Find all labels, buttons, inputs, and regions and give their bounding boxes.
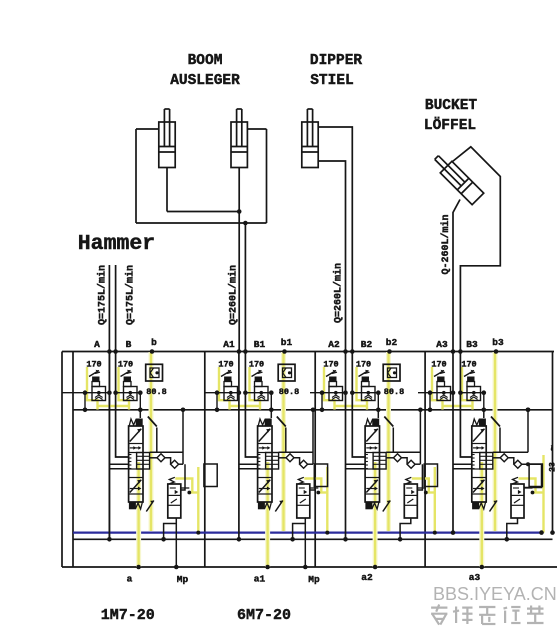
spool valve section 4 <box>472 426 486 502</box>
wire to check valves section 2 <box>279 457 286 459</box>
svg-text:23: 23 <box>549 462 557 472</box>
watermark chinese <box>431 605 543 625</box>
pilot yellow link section 1 <box>98 405 130 407</box>
wire feed to aux section 1 <box>181 464 185 490</box>
junction mid B2 <box>376 408 381 413</box>
junction aux-loop section 3 <box>398 537 403 542</box>
svg-text:STIEL: STIEL <box>310 73 354 89</box>
pilot yellow aux section 4 <box>533 491 544 493</box>
carryover box at x=315.2 <box>314 464 327 487</box>
wire to check valves section 1 <box>150 457 157 459</box>
junction boom-2 <box>243 221 248 226</box>
svg-text:6M7-20: 6M7-20 <box>237 607 291 624</box>
junction mid A <box>83 408 88 413</box>
node a3 <box>373 565 378 570</box>
wire aux-loop section 4 <box>507 519 518 540</box>
wire boom loop left <box>135 129 137 223</box>
junction mid feed section 2 <box>311 408 316 413</box>
node b3 <box>494 349 499 354</box>
wire check to feed section 1 <box>179 463 183 465</box>
wire relief-junction A1 <box>205 392 239 394</box>
node A2 supply-R <box>350 349 355 354</box>
check valve box section 3 <box>383 364 400 381</box>
svg-text:b2: b2 <box>386 337 398 348</box>
wire supply-right section 1 in block <box>116 352 129 458</box>
svg-text:a: a <box>127 574 133 585</box>
wire supply-right section 3 in block <box>352 352 365 458</box>
svg-text:B2: B2 <box>361 339 373 350</box>
wire aux-loop section 1 <box>164 524 177 540</box>
junction B2 jl <box>350 390 355 395</box>
junction supply bottom section 1 <box>107 537 112 542</box>
check valve 2 section 3 <box>407 460 415 468</box>
divider s2-s3 <box>314 352 316 568</box>
wire supply-left section 4 in block <box>452 352 454 533</box>
node a4 <box>480 565 485 570</box>
junction supply bottom section 2 <box>237 537 242 542</box>
cylinder bucket <box>431 152 484 205</box>
wire spool-in-2 section 1 <box>109 468 128 470</box>
pilot yellow aux-top section 2 <box>304 479 321 493</box>
wire spool-in-1 section 4 <box>453 463 472 465</box>
pilot yellow relief B3 <box>462 367 473 410</box>
wire spool-top feed section 2 <box>270 410 272 418</box>
junction mid B1 <box>269 408 274 413</box>
pilot yellow aux-top section 3 <box>412 479 429 493</box>
svg-text:DIPPER: DIPPER <box>310 53 363 69</box>
wire bypass section 3 <box>386 451 420 453</box>
pilot yellow relief B1 <box>250 367 261 410</box>
aux valve section 1 <box>168 484 181 518</box>
wire feed vertical section 2 <box>312 410 314 464</box>
wire check to feed section 3 <box>415 463 420 465</box>
wire spool-in-1 section 1 <box>109 463 128 465</box>
wire relief-junction B1 <box>245 392 271 394</box>
svg-text:1M7-20: 1M7-20 <box>101 607 155 624</box>
pilot yellow link section 3 <box>335 405 368 407</box>
svg-text:b3: b3 <box>492 337 504 348</box>
pilot yellow relief A2 <box>324 367 335 410</box>
svg-text:170: 170 <box>218 360 233 370</box>
svg-text:b: b <box>151 337 157 348</box>
carryover box at x=425.1 <box>424 464 437 487</box>
junction B3 jl <box>458 390 463 395</box>
junction B2 jr <box>376 390 381 395</box>
node A supply-L <box>107 349 112 354</box>
pilot yellow relief A3 <box>432 367 443 410</box>
wire between check valves section 3 <box>402 458 408 464</box>
node a2 <box>265 565 270 570</box>
svg-text:BUCKET: BUCKET <box>425 98 478 114</box>
check valve 2 section 4 <box>514 460 522 468</box>
junction mid A1 <box>215 408 220 413</box>
node a1 <box>136 565 141 570</box>
wire feed to aux section 2 <box>310 464 315 490</box>
wire between check valves section 4 <box>508 458 514 464</box>
svg-text:170: 170 <box>356 360 371 370</box>
wire aux-down Mp section 2 <box>304 519 306 568</box>
cylinder boom-2 <box>231 122 247 168</box>
node A3 supply-R <box>458 349 463 354</box>
wire bucket rod side <box>453 200 460 352</box>
junction A1 jl <box>215 390 220 395</box>
svg-text:A3: A3 <box>436 339 448 350</box>
svg-text:170: 170 <box>118 360 133 370</box>
svg-text:Q=175L/min: Q=175L/min <box>97 265 109 325</box>
junction aux-loop section 4 <box>505 537 510 542</box>
junction mid B3 <box>482 408 487 413</box>
wire relief-junction B <box>116 392 141 394</box>
check valve 1 section 4 <box>500 454 508 462</box>
carryover box at x=204.8 <box>204 464 217 487</box>
junction boom-1 <box>237 209 242 214</box>
node b1 <box>282 349 287 354</box>
wire boom loop right <box>266 129 268 223</box>
junction supply blue section 4 <box>451 530 456 535</box>
wire hammer supply right <box>115 265 117 352</box>
svg-text:a1: a1 <box>254 574 266 585</box>
check valve box section 1 <box>146 364 163 381</box>
junction mid A2 <box>320 408 325 413</box>
junction mid B <box>138 408 143 413</box>
junction B3 jr <box>482 390 487 395</box>
wire check to feed section 4 <box>522 463 542 465</box>
svg-text:Hammer: Hammer <box>78 232 155 256</box>
junction mid feed section 3 <box>418 408 423 413</box>
wire aux-down Mp section 1 <box>175 519 177 568</box>
node A1 supply-L <box>237 349 242 354</box>
wire supply-left section 1 in block <box>108 352 110 540</box>
wire lever link section 2 <box>285 428 287 453</box>
wire between check valves section 1 <box>165 458 171 464</box>
wire boom cyl1 down <box>166 168 168 212</box>
pilot yellow link section 4 <box>443 405 473 407</box>
wire spool-in-1 section 2 <box>239 463 258 465</box>
junction A3 jl <box>428 390 433 395</box>
pilot yellow aux section 1 <box>189 491 198 493</box>
junction mid A3 <box>428 408 433 413</box>
junction A2 jl <box>320 390 325 395</box>
pilot yellow relief B <box>119 367 130 410</box>
frame inner-left <box>72 352 74 568</box>
svg-text:a3: a3 <box>469 572 481 583</box>
junction mid-right <box>526 408 531 413</box>
wire hammer supply left <box>108 265 110 539</box>
svg-text:Q=260L/min: Q=260L/min <box>333 263 345 323</box>
wire feed to aux section 4 <box>524 464 542 487</box>
pilot yellow right edge <box>542 455 544 533</box>
frame lower <box>73 538 553 540</box>
aux valve section 2 <box>297 484 310 518</box>
svg-text:~: ~ <box>548 445 557 451</box>
wire boom loop top-left <box>136 128 159 130</box>
wire spool-in-2 section 2 <box>239 468 258 470</box>
pilot yellow port a3 <box>373 462 378 567</box>
junction blue end 2 <box>550 530 555 535</box>
wire boom supply right <box>244 223 246 352</box>
svg-text:80.8: 80.8 <box>279 387 299 397</box>
junction supply bottom section 3 <box>343 537 348 542</box>
pilot yellow aux-top section 4 <box>519 479 536 493</box>
cylinder dipper <box>302 122 318 168</box>
svg-text:80.8: 80.8 <box>384 387 404 397</box>
check valve 1 section 1 <box>157 454 165 462</box>
node A1 supply-R <box>243 349 248 354</box>
wire supply-right section 2 in block <box>245 352 257 458</box>
pilot yellow relief B2 <box>357 367 368 410</box>
frame bottom <box>62 566 557 568</box>
node b <box>150 349 155 354</box>
node A supply-R <box>113 349 118 354</box>
node Mp section 2 <box>303 565 308 570</box>
divider s3-s4 <box>424 352 426 568</box>
wire boom loop bottom <box>136 222 267 224</box>
spool valve section 1 <box>129 426 143 502</box>
wire relief-leg A2 <box>321 393 323 410</box>
wire dipper bottom <box>318 161 345 352</box>
junction B1 jr <box>269 390 274 395</box>
junction B jl <box>113 390 118 395</box>
node A2 supply-L <box>343 349 348 354</box>
junction A jr <box>107 390 112 395</box>
check valve box section 2 <box>278 364 295 381</box>
svg-text:b1: b1 <box>281 337 293 348</box>
pilot yellow port b2 <box>386 352 391 531</box>
pilot yellow port a4 <box>479 462 484 567</box>
wire lever link section 4 <box>499 428 501 453</box>
junction aux-yellow blue section 1 <box>196 531 200 535</box>
wire relief-leg A <box>84 393 86 410</box>
wire bypass section 4 <box>493 451 528 453</box>
svg-text:B3: B3 <box>466 339 478 350</box>
frame far-right <box>552 352 554 533</box>
check valve 1 section 2 <box>286 454 294 462</box>
check valve 2 section 2 <box>300 460 308 468</box>
wire aux-loop section 3 <box>400 519 411 540</box>
node Mp section 1 <box>174 565 179 570</box>
wire boom loop top-right <box>247 128 266 130</box>
wire to check valves section 3 <box>386 457 393 459</box>
wire supply-left section 3 in block <box>345 352 347 540</box>
wire relief-junction B3 <box>460 392 483 394</box>
aux valve section 4 <box>511 484 524 518</box>
wire relief-junction A <box>62 392 109 394</box>
svg-text:A: A <box>94 339 100 350</box>
junction mid feed section 1 <box>181 408 186 413</box>
junction aux-loop section 1 <box>161 537 166 542</box>
junction carryover section 4 <box>526 462 530 466</box>
wire boom join <box>167 211 239 213</box>
wire dipper top <box>318 127 352 352</box>
aux valve section 3 <box>404 484 417 518</box>
junction A jl <box>83 390 88 395</box>
cylinder boom-1 <box>159 122 175 168</box>
wire lever link section 3 <box>392 428 394 453</box>
svg-text:Mp: Mp <box>177 574 189 585</box>
svg-text:170: 170 <box>461 360 476 370</box>
frame top <box>62 351 554 353</box>
wire relief-junction A3 <box>418 392 453 394</box>
svg-text:A1: A1 <box>223 339 235 350</box>
svg-text:170: 170 <box>86 360 101 370</box>
pilot yellow aux section 3 <box>426 491 435 493</box>
junction B1 jl <box>243 390 248 395</box>
svg-text:B: B <box>126 339 132 350</box>
junction A1 jr <box>237 390 242 395</box>
wire check to feed section 2 <box>308 463 313 465</box>
junction aux-yellow blue section 2 <box>325 531 329 535</box>
wire relief-leg B <box>139 393 141 410</box>
spool valve section 2 <box>258 426 272 502</box>
junction blue end 1 <box>539 530 544 535</box>
divider s1-s2 <box>204 352 206 568</box>
frame outer-left <box>61 352 63 568</box>
junction A2 jr <box>343 390 348 395</box>
pilot yellow port b3 <box>493 352 498 531</box>
svg-text:a2: a2 <box>361 572 373 583</box>
svg-text:170: 170 <box>249 360 264 370</box>
svg-text:Q=260L/min: Q=260L/min <box>228 265 240 325</box>
svg-text:BBS.IYEYA.CN: BBS.IYEYA.CN <box>433 584 557 604</box>
pilot yellow aux section 2 <box>318 491 327 493</box>
wire boom supply left <box>238 168 240 352</box>
svg-text:Q-260L/min: Q-260L/min <box>440 214 452 274</box>
pilot yellow port b <box>149 352 154 531</box>
junction B jr <box>138 390 143 395</box>
wire relief-junction A2 <box>310 392 346 394</box>
wire spool-top feed section 4 <box>483 410 485 418</box>
wire spool-in-2 section 4 <box>453 468 472 470</box>
wire feed vertical section 1 <box>182 410 184 464</box>
wire spool-top feed section 3 <box>377 410 379 418</box>
spool valve section 3 <box>365 426 379 502</box>
wire feed vertical section 4 <box>527 410 529 453</box>
svg-text:170: 170 <box>431 360 446 370</box>
wire lever link section 1 <box>156 428 158 453</box>
svg-text:80.8: 80.8 <box>146 387 166 397</box>
wire feed to aux section 3 <box>417 464 422 490</box>
wire relief-leg B3 <box>483 393 485 410</box>
junction aux-yellow blue section 3 <box>433 531 437 535</box>
junction A3 jr <box>451 390 456 395</box>
pilot yellow relief A <box>87 367 98 410</box>
wire relief-leg A1 <box>216 393 218 410</box>
svg-text:Q=175L/min: Q=175L/min <box>125 265 137 325</box>
junction aux-loop section 2 <box>290 537 295 542</box>
pilot yellow port b1 <box>281 352 286 531</box>
pilot yellow port a2 <box>265 462 270 567</box>
wire to check valves section 4 <box>493 457 500 459</box>
pilot yellow port a1 <box>136 462 141 567</box>
wire relief-leg A3 <box>429 393 431 410</box>
check valve 1 section 3 <box>394 454 402 462</box>
wire spool-in-1 section 3 <box>346 463 366 465</box>
wire bypass section 1 <box>150 451 183 453</box>
wire relief-leg B2 <box>377 393 379 410</box>
svg-text:A2: A2 <box>328 339 340 350</box>
wire bypass section 2 <box>279 451 313 453</box>
svg-text:B1: B1 <box>254 339 266 350</box>
wire spool-top feed section 1 <box>139 410 141 418</box>
svg-text:Mp: Mp <box>308 574 320 585</box>
wire aux-loop section 2 <box>293 524 306 540</box>
pilot yellow link section 2 <box>230 405 261 407</box>
wire bucket cap side <box>453 147 501 352</box>
wire between check valves section 2 <box>294 458 300 464</box>
pilot yellow relief A1 <box>219 367 230 410</box>
wire relief-leg B1 <box>270 393 272 410</box>
svg-text:BOOM: BOOM <box>188 53 223 69</box>
svg-text:170: 170 <box>323 360 338 370</box>
frame mid <box>73 409 553 411</box>
svg-text:AUSLEGER: AUSLEGER <box>170 73 240 89</box>
junction mid feed section 4 <box>526 408 531 413</box>
carryover box at x=530.0 <box>529 464 542 487</box>
node A3 supply-L <box>451 349 456 354</box>
wire relief-junction B2 <box>352 392 378 394</box>
wire feed vertical section 3 <box>419 410 421 464</box>
node b2 <box>387 349 392 354</box>
svg-text:LÖFFEL: LÖFFEL <box>424 117 476 134</box>
wire spool-in-2 section 3 <box>346 468 366 470</box>
check valve 2 section 1 <box>171 460 179 468</box>
wire supply-right section 4 in block <box>460 352 471 458</box>
wire supply-left section 2 in block <box>238 352 240 540</box>
pilot yellow aux-top section 1 <box>175 479 192 493</box>
tank line blue <box>73 531 542 533</box>
